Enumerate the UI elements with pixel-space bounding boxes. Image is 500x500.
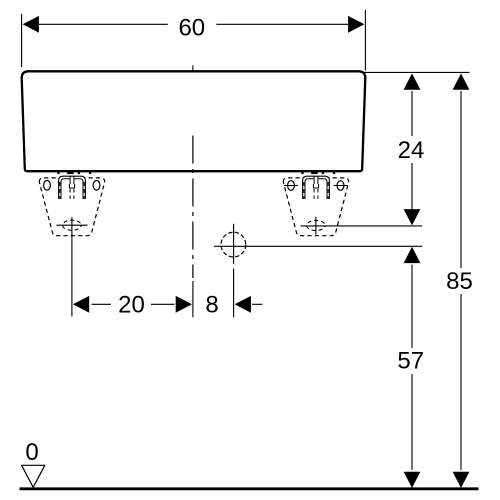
dimension 60: left extension line bbox=[21, 14, 23, 67]
dimension 57: lower arrowhead bbox=[404, 472, 421, 488]
dimension 60: left arrowhead bbox=[23, 16, 39, 33]
svg-text:85: 85 bbox=[446, 268, 473, 295]
left bracket: anchor arch inner lines bbox=[61, 179, 83, 199]
dimension 60: value label bbox=[178, 15, 205, 42]
right bracket: right hole bbox=[334, 181, 348, 191]
dimension 85: lower arrowhead bbox=[453, 472, 470, 488]
left bracket: anchor screw slot bbox=[69, 176, 74, 188]
extension line at drain level bbox=[214, 245, 422, 247]
dimension 8: value label bbox=[205, 292, 218, 319]
dimension 85: dimension line bbox=[460, 91, 462, 470]
dimension 24: upper arrowhead bbox=[404, 73, 421, 89]
dimension 24: lower arrowhead bbox=[404, 209, 421, 225]
right bracket: anchor arch outer bbox=[303, 176, 330, 199]
right bracket: screw centre cross bbox=[307, 217, 326, 234]
left bracket: anchor leg dashes bbox=[60, 182, 84, 199]
svg-text:24: 24 bbox=[398, 137, 425, 164]
dimension 57: dimension line bbox=[411, 265, 413, 470]
extension line at bracket screw level bbox=[301, 225, 423, 227]
dimension 20: right arrowhead bbox=[176, 296, 192, 313]
vertical centerline (basin axis) bbox=[192, 136, 194, 318]
floor line bbox=[20, 487, 479, 490]
left bracket: hook tabs on basin edge bbox=[57, 170, 91, 174]
left bracket: left hole bbox=[44, 181, 51, 191]
left bracket: dashed trapezoid body bbox=[39, 178, 104, 236]
datum level label 0 bbox=[25, 439, 38, 466]
svg-text:57: 57 bbox=[397, 347, 424, 374]
dimension 24: dimension line bbox=[411, 91, 413, 209]
right bracket: anchor leg dashes bbox=[304, 182, 328, 199]
right bracket: hook tabs on basin edge bbox=[301, 170, 335, 174]
dimension 20: dimension line bbox=[92, 303, 175, 305]
dimension 24: value label bbox=[398, 137, 425, 164]
svg-text:0: 0 bbox=[25, 439, 38, 466]
right bracket: anchor screw slot bbox=[313, 176, 318, 188]
dimension 60: right extension line bbox=[364, 10, 366, 71]
basin outline bbox=[22, 71, 366, 171]
dimension 60: dimension line bbox=[39, 23, 348, 25]
svg-text:60: 60 bbox=[178, 15, 205, 42]
drain hole (dashed circle) bbox=[221, 232, 246, 257]
extension line at basin top level (right side) bbox=[364, 71, 470, 73]
dimension 57: upper arrowhead bbox=[404, 247, 421, 263]
right bracket: left hole bbox=[284, 181, 298, 191]
left bracket: right hole bbox=[93, 181, 100, 191]
centerline tick at basin top bbox=[192, 65, 194, 70]
dimension 85: upper arrowhead bbox=[453, 73, 470, 89]
dimension 85: value label bbox=[446, 268, 473, 295]
dimension 8: arrowhead bbox=[235, 296, 263, 313]
dimension 20: left arrowhead bbox=[73, 296, 89, 313]
dimension 57: value label bbox=[397, 347, 424, 374]
svg-text:8: 8 bbox=[205, 292, 218, 319]
right bracket: anchor arch inner lines bbox=[305, 179, 327, 199]
dimension 60: right arrowhead bbox=[348, 16, 364, 33]
right bracket: dashed trapezoid body bbox=[283, 178, 348, 236]
left bracket: anchor arch outer bbox=[59, 176, 86, 199]
svg-text:20: 20 bbox=[118, 292, 145, 319]
dimension 20: value label bbox=[118, 292, 145, 319]
dimension 20: left extension line (from left bracket) bbox=[71, 217, 73, 316]
left bracket: screw centre cross bbox=[57, 220, 88, 230]
datum level triangle bbox=[22, 465, 45, 487]
dimension 8: extension line (drain axis) bbox=[233, 224, 235, 317]
